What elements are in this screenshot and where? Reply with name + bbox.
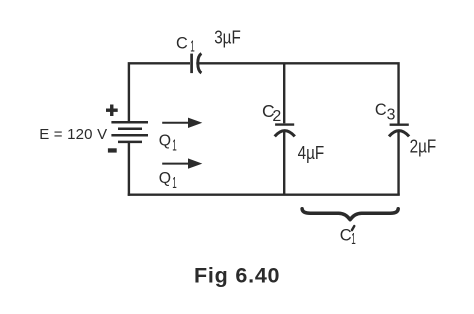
battery E (4 plates) xyxy=(111,122,148,142)
arrow Q1 upper xyxy=(162,118,202,128)
battery plus sign xyxy=(106,105,118,117)
capacitor C1 (curved plate) xyxy=(198,54,202,74)
svg-text:E = 120 V: E = 120 V xyxy=(39,126,107,143)
capacitor C1 (flat plate) xyxy=(190,54,193,74)
capacitor C3 (curved plate) xyxy=(389,131,409,137)
wire C3 lower lead xyxy=(397,130,399,195)
wire bottom run xyxy=(128,193,400,195)
battery minus sign xyxy=(108,148,117,152)
svg-text:Q: Q xyxy=(159,133,171,150)
svg-text:3: 3 xyxy=(387,106,396,123)
svg-text:Fig 6.40: Fig 6.40 xyxy=(194,263,280,287)
svg-text:C: C xyxy=(375,101,387,119)
svg-text:1: 1 xyxy=(351,231,356,248)
svg-text:3µF: 3µF xyxy=(214,28,241,48)
svg-text:2µF: 2µF xyxy=(410,136,437,156)
svg-text:1: 1 xyxy=(172,138,177,155)
brace for C'1 equivalent xyxy=(302,209,398,220)
svg-text:Q: Q xyxy=(159,170,171,187)
wire left vertical below battery xyxy=(128,142,130,196)
svg-text:C: C xyxy=(340,227,352,245)
svg-text:1: 1 xyxy=(190,39,195,56)
wire top-right run (top wire right of C1 + right vertical down to C3) xyxy=(196,63,398,123)
capacitor C3 (flat plate) xyxy=(390,123,409,125)
capacitor C2 (flat plate) xyxy=(275,123,294,125)
wire C2 lower lead xyxy=(283,130,285,195)
wire middle vertical (node between C1,C2) xyxy=(283,64,285,123)
svg-text:C: C xyxy=(176,35,188,53)
svg-text:4µF: 4µF xyxy=(298,143,325,163)
wire top-left run (top wire left of C1 + left vertical down to battery) xyxy=(129,63,190,121)
svg-text:2: 2 xyxy=(272,108,281,125)
svg-text:1: 1 xyxy=(172,175,177,192)
arrow Q1 lower xyxy=(162,158,202,168)
capacitor C2 (curved plate) xyxy=(275,131,295,137)
